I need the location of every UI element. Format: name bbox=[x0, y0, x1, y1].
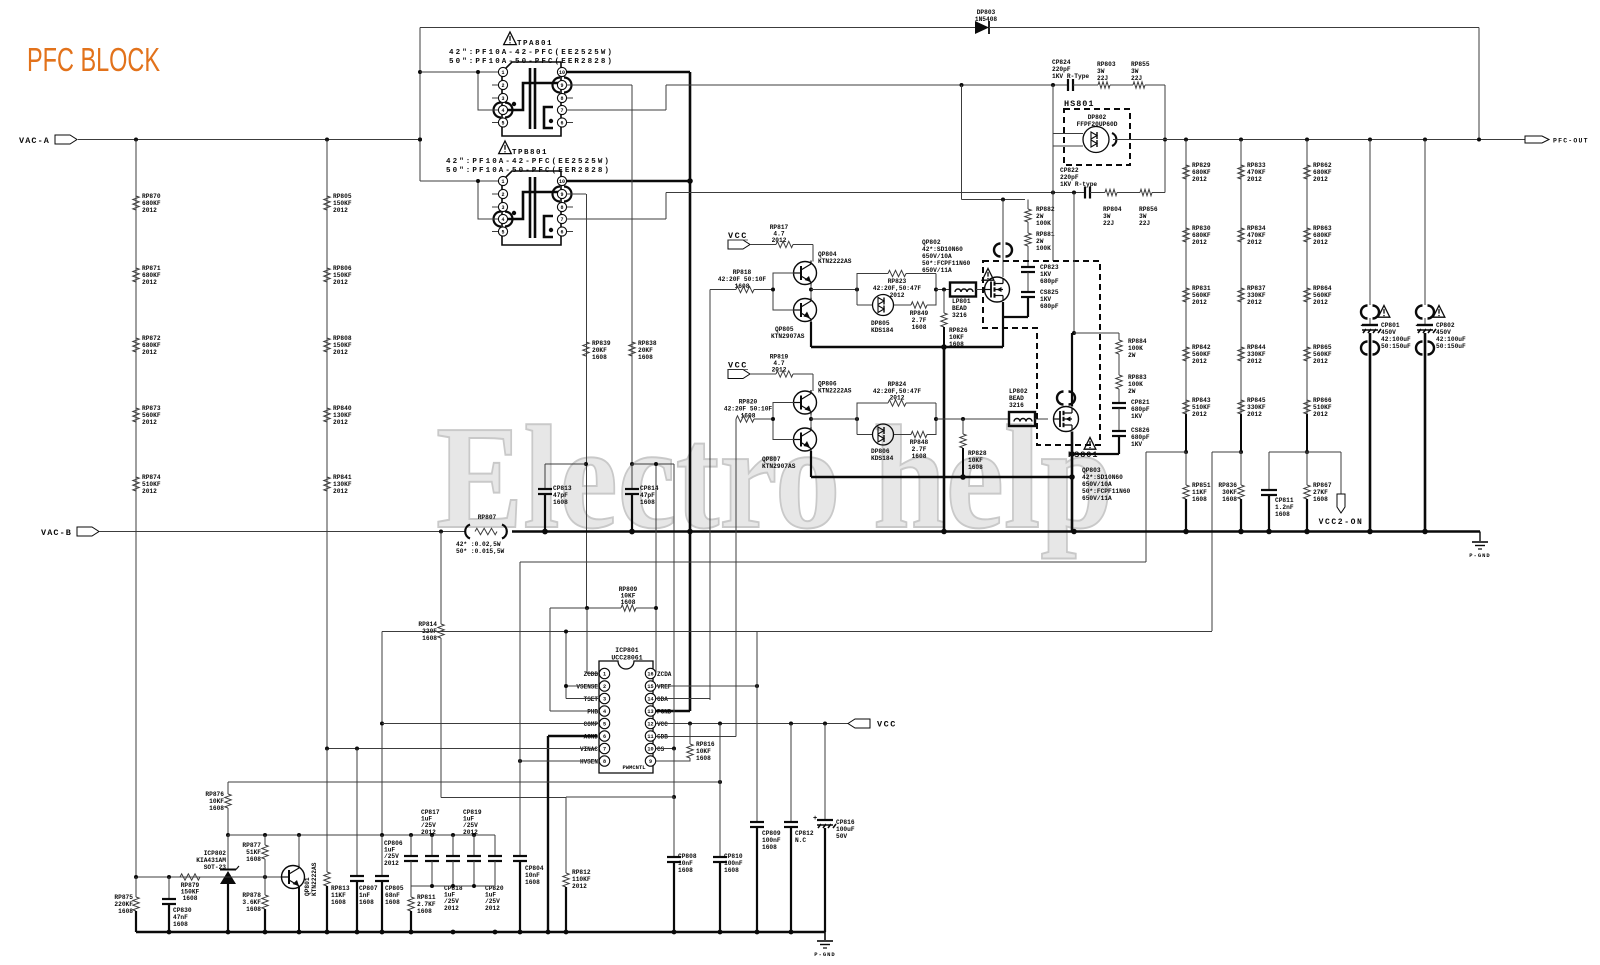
svg-text:100K: 100K bbox=[1128, 381, 1143, 388]
svg-text:1608: 1608 bbox=[912, 453, 927, 460]
svg-text:50*:FCPF11N60: 50*:FCPF11N60 bbox=[1082, 488, 1131, 495]
svg-text:2012: 2012 bbox=[1192, 358, 1207, 365]
svg-text:15: 15 bbox=[647, 684, 653, 690]
svg-text:CP808: CP808 bbox=[678, 853, 697, 860]
svg-text:KDS184: KDS184 bbox=[871, 455, 894, 462]
svg-text:680pF: 680pF bbox=[1040, 303, 1059, 310]
svg-text:2012: 2012 bbox=[1247, 411, 1262, 418]
diode DP806 bbox=[856, 419, 858, 435]
capacitor CP810 bbox=[719, 724, 721, 858]
svg-text:2W: 2W bbox=[1128, 352, 1136, 359]
svg-text:RP829: RP829 bbox=[1192, 162, 1211, 169]
svg-text:10nF: 10nF bbox=[678, 860, 693, 867]
svg-text:DP805: DP805 bbox=[871, 320, 890, 327]
wire QP802 drain bbox=[1002, 200, 1004, 278]
svg-text:220pF: 220pF bbox=[1052, 66, 1071, 73]
svg-text:5: 5 bbox=[501, 230, 504, 236]
resistor RP808 bbox=[324, 338, 330, 352]
svg-text:VCC: VCC bbox=[657, 721, 668, 728]
svg-text:680KF: 680KF bbox=[1313, 232, 1332, 239]
svg-text:1608: 1608 bbox=[209, 805, 224, 812]
svg-text:1nF: 1nF bbox=[359, 892, 370, 899]
svg-text:220KF: 220KF bbox=[114, 901, 133, 908]
svg-text:42:20F 50:10F: 42:20F 50:10F bbox=[724, 406, 773, 413]
svg-text:3: 3 bbox=[501, 205, 504, 211]
svg-text:RP840: RP840 bbox=[333, 405, 352, 412]
svg-text:1608: 1608 bbox=[678, 867, 693, 874]
svg-text:RP831: RP831 bbox=[1192, 285, 1211, 292]
svg-text:BEAD: BEAD bbox=[952, 305, 967, 312]
svg-text:2012: 2012 bbox=[1192, 299, 1207, 306]
svg-text:QP804: QP804 bbox=[818, 251, 837, 258]
resistor RP844 bbox=[1238, 347, 1244, 361]
svg-text:2012: 2012 bbox=[1313, 299, 1328, 306]
svg-text:42*:SD10N60: 42*:SD10N60 bbox=[1082, 474, 1123, 481]
svg-text:1608: 1608 bbox=[118, 908, 133, 915]
svg-text:RP837: RP837 bbox=[1247, 285, 1266, 292]
wire driver B emitter bus thick bbox=[810, 451, 812, 477]
heatsink HS801 lower dashed box bbox=[983, 261, 1100, 445]
IC ICP801 UCC28061 bbox=[576, 647, 671, 773]
svg-text:RP842: RP842 bbox=[1192, 344, 1211, 351]
svg-text:1KV: 1KV bbox=[1040, 296, 1051, 303]
svg-text:VCC: VCC bbox=[728, 231, 748, 241]
svg-text:RP848: RP848 bbox=[910, 439, 929, 446]
svg-text:150KF: 150KF bbox=[333, 342, 352, 349]
wire CP822 net drop x=1074 bbox=[1073, 193, 1075, 334]
svg-text:RP849: RP849 bbox=[910, 310, 929, 317]
svg-text:330KF: 330KF bbox=[1247, 404, 1266, 411]
wire bus to P-GND bbox=[1479, 532, 1481, 542]
svg-text:QP801: QP801 bbox=[304, 877, 311, 896]
node VCC2-ON bbox=[1307, 451, 1341, 453]
svg-text:CP816: CP816 bbox=[836, 819, 855, 826]
svg-text:RP807: RP807 bbox=[478, 514, 497, 521]
wire AGND thick bbox=[548, 735, 597, 737]
capacitor CP820 bbox=[494, 835, 496, 856]
resistor RP843 bbox=[1183, 400, 1189, 414]
svg-text:RP867: RP867 bbox=[1313, 482, 1332, 489]
svg-text:470KF: 470KF bbox=[1247, 232, 1266, 239]
wire CS net bbox=[656, 748, 674, 750]
svg-text:2012: 2012 bbox=[1313, 411, 1328, 418]
svg-text:680KF: 680KF bbox=[1192, 169, 1211, 176]
svg-text:RP875: RP875 bbox=[114, 894, 133, 901]
svg-text:13: 13 bbox=[647, 709, 653, 715]
svg-text:680pF: 680pF bbox=[1131, 406, 1150, 413]
svg-text:100K: 100K bbox=[1128, 345, 1143, 352]
svg-text:22J: 22J bbox=[1097, 75, 1108, 82]
svg-text:2: 2 bbox=[501, 192, 504, 198]
ferrite bead LP801 bbox=[950, 283, 976, 297]
ferrite bead LP802 bbox=[1009, 412, 1035, 426]
svg-text:1608: 1608 bbox=[525, 879, 540, 886]
svg-text:650V/11A: 650V/11A bbox=[922, 267, 952, 274]
resistor RP873 bbox=[133, 408, 139, 422]
svg-text:3216: 3216 bbox=[952, 312, 967, 319]
svg-text:RP881: RP881 bbox=[1036, 231, 1055, 238]
svg-text:4: 4 bbox=[501, 217, 504, 223]
resistor RP848 bbox=[894, 434, 911, 436]
svg-text:42:100uF: 42:100uF bbox=[1436, 336, 1466, 343]
svg-text:RP862: RP862 bbox=[1313, 162, 1332, 169]
svg-text:DP803: DP803 bbox=[977, 9, 996, 16]
svg-text:330KF: 330KF bbox=[1247, 351, 1266, 358]
svg-text:BEAD: BEAD bbox=[1009, 395, 1024, 402]
wire bottom gnd bus thick bbox=[136, 931, 825, 934]
resistor RP862 bbox=[1304, 165, 1310, 179]
capacitor CP822 bbox=[1084, 187, 1086, 199]
svg-text:RP806: RP806 bbox=[333, 265, 352, 272]
capacitor CP811 bbox=[1269, 451, 1307, 453]
svg-text:2.7F: 2.7F bbox=[912, 317, 927, 324]
svg-text:1608: 1608 bbox=[621, 599, 636, 606]
svg-text:8: 8 bbox=[560, 205, 563, 211]
svg-text:HS801: HS801 bbox=[1064, 99, 1095, 109]
svg-text:10: 10 bbox=[559, 179, 565, 185]
svg-text:1608: 1608 bbox=[183, 895, 198, 902]
resistor RP811 bbox=[410, 886, 412, 897]
svg-text:2012: 2012 bbox=[772, 366, 787, 373]
svg-text:CP804: CP804 bbox=[525, 865, 544, 872]
heatsink HS801 dashed box bbox=[1064, 109, 1130, 165]
svg-text:1608: 1608 bbox=[640, 499, 655, 506]
svg-text:2W: 2W bbox=[1128, 388, 1136, 395]
svg-text:560KF: 560KF bbox=[1313, 351, 1332, 358]
svg-text:1608: 1608 bbox=[385, 899, 400, 906]
svg-text:PWMCNTL: PWMCNTL bbox=[622, 764, 646, 771]
svg-text:2012: 2012 bbox=[1313, 176, 1328, 183]
capacitor CP816 bbox=[824, 724, 826, 821]
resistor RP804 bbox=[1090, 192, 1105, 194]
svg-text:.: . bbox=[1359, 320, 1364, 329]
svg-text:510KF: 510KF bbox=[1313, 404, 1332, 411]
svg-text:2012: 2012 bbox=[333, 207, 348, 214]
svg-text:680pF: 680pF bbox=[1131, 434, 1150, 441]
svg-text:N.C: N.C bbox=[795, 837, 806, 844]
wire CS to RP812 bbox=[566, 796, 674, 798]
svg-text:11: 11 bbox=[647, 734, 653, 740]
svg-text:1608: 1608 bbox=[359, 899, 374, 906]
resistor RP834 bbox=[1238, 228, 1244, 242]
capacitor CP814 bbox=[631, 464, 633, 489]
wire RP876 feedback y=782 bbox=[228, 781, 720, 783]
wire gate node A bbox=[936, 289, 950, 291]
MOSFET QP803 bbox=[1057, 392, 1064, 405]
wire QP801 emitter bbox=[298, 886, 300, 932]
svg-text:2012: 2012 bbox=[142, 279, 157, 286]
wire sense line y=562 bbox=[520, 561, 1146, 563]
svg-text:2: 2 bbox=[603, 684, 606, 690]
svg-text:510KF: 510KF bbox=[142, 481, 161, 488]
svg-text:7: 7 bbox=[560, 108, 563, 114]
svg-text:42:20F,50:47F: 42:20F,50:47F bbox=[873, 285, 922, 292]
wire top bus drop to PFC-OUT line bbox=[1478, 28, 1480, 140]
svg-text:RP830: RP830 bbox=[1192, 225, 1211, 232]
svg-text:RP838: RP838 bbox=[638, 340, 657, 347]
svg-text:22J: 22J bbox=[1131, 75, 1142, 82]
wire TSET VSENSE riser x=566 bbox=[565, 632, 567, 699]
svg-text:RP855: RP855 bbox=[1131, 61, 1150, 68]
svg-text:560KF: 560KF bbox=[1192, 351, 1211, 358]
svg-text:2012: 2012 bbox=[142, 488, 157, 495]
svg-text:1: 1 bbox=[603, 672, 606, 678]
svg-text:RP856: RP856 bbox=[1139, 206, 1158, 213]
svg-text:LP801: LP801 bbox=[952, 298, 971, 305]
wire CS826 to source thick bbox=[1118, 436, 1120, 454]
svg-text:510KF: 510KF bbox=[1192, 404, 1211, 411]
svg-text:680KF: 680KF bbox=[1192, 232, 1211, 239]
wire base link B bbox=[773, 403, 794, 420]
resistor RP805 bbox=[324, 196, 330, 210]
svg-text:50:150uF: 50:150uF bbox=[1436, 343, 1466, 350]
wire VINAC column continue bbox=[326, 749, 328, 873]
wire VCC net bbox=[656, 723, 848, 725]
svg-text:42*:SD10N60: 42*:SD10N60 bbox=[922, 246, 963, 253]
resistor RP883 bbox=[1118, 354, 1120, 375]
capacitor CP812 bbox=[790, 724, 792, 823]
svg-text:3: 3 bbox=[501, 96, 504, 102]
svg-text:RP884: RP884 bbox=[1128, 338, 1147, 345]
label TPA801 bbox=[504, 32, 517, 45]
svg-text:2012: 2012 bbox=[890, 292, 905, 299]
node VCC flag A bbox=[728, 240, 750, 249]
resistor RP875 bbox=[135, 877, 137, 897]
svg-text:2012: 2012 bbox=[485, 905, 500, 912]
svg-text:10: 10 bbox=[647, 747, 653, 753]
svg-text:450V: 450V bbox=[1436, 329, 1451, 336]
wire driver A emitter bus thick bbox=[810, 322, 812, 347]
wire VREF riser x=757 / CP809 bbox=[756, 631, 758, 822]
capacitor CP807 bbox=[356, 749, 358, 877]
svg-text:1608: 1608 bbox=[724, 867, 739, 874]
svg-text:100K: 100K bbox=[1036, 220, 1051, 227]
svg-text:CP830: CP830 bbox=[173, 907, 192, 914]
wire bleeder column x=1307 bbox=[1306, 140, 1308, 415]
svg-text:2: 2 bbox=[501, 83, 504, 89]
transistor QP804 bbox=[794, 262, 817, 285]
svg-text:RP874: RP874 bbox=[142, 474, 161, 481]
svg-text:6: 6 bbox=[560, 121, 563, 127]
transistor QP807 bbox=[794, 428, 817, 451]
svg-text:100nF: 100nF bbox=[724, 860, 743, 867]
resistor RP876 bbox=[227, 782, 229, 794]
svg-text:2012: 2012 bbox=[890, 395, 905, 402]
transformer TPB801 bbox=[492, 171, 573, 245]
svg-text:2012: 2012 bbox=[1247, 239, 1262, 246]
resistor RP878 bbox=[264, 877, 266, 895]
svg-text:RP876: RP876 bbox=[205, 791, 224, 798]
wire box link to x674 bbox=[632, 463, 674, 465]
svg-text:RP813: RP813 bbox=[331, 885, 350, 892]
svg-text:47nF: 47nF bbox=[173, 914, 188, 921]
capacitor CP830 bbox=[168, 877, 170, 899]
wire divider column x=327 bbox=[326, 140, 328, 749]
svg-text:QP805: QP805 bbox=[775, 326, 794, 333]
svg-text:KTN2222AS: KTN2222AS bbox=[311, 862, 318, 896]
resistor RP812 bbox=[563, 873, 569, 887]
svg-text:3216: 3216 bbox=[1009, 402, 1024, 409]
svg-text:DP802: DP802 bbox=[1088, 114, 1107, 121]
svg-text:RP841: RP841 bbox=[333, 474, 352, 481]
svg-text:RP865: RP865 bbox=[1313, 344, 1332, 351]
svg-text:5: 5 bbox=[501, 121, 504, 127]
svg-text:150KF: 150KF bbox=[333, 272, 352, 279]
svg-text:10: 10 bbox=[559, 70, 565, 76]
svg-text:2012: 2012 bbox=[1247, 358, 1262, 365]
svg-text:PGND: PGND bbox=[657, 709, 672, 716]
svg-text:P-GND: P-GND bbox=[814, 951, 836, 958]
svg-text:650V/11A: 650V/11A bbox=[1082, 495, 1112, 502]
svg-text:2.7F: 2.7F bbox=[912, 446, 927, 453]
svg-text:10KF: 10KF bbox=[968, 457, 983, 464]
svg-text:220pF: 220pF bbox=[1060, 174, 1079, 181]
svg-text:RP828: RP828 bbox=[968, 450, 987, 457]
svg-text:CS: CS bbox=[657, 746, 665, 753]
svg-text:RP808: RP808 bbox=[333, 335, 352, 342]
svg-text:KDS184: KDS184 bbox=[871, 327, 894, 334]
svg-text:100nF: 100nF bbox=[762, 837, 781, 844]
svg-text:1608: 1608 bbox=[592, 354, 607, 361]
svg-text:ICP802: ICP802 bbox=[204, 850, 227, 857]
svg-text:2012: 2012 bbox=[1313, 358, 1328, 365]
svg-text:KTN2222AS: KTN2222AS bbox=[818, 388, 852, 395]
capacitor CP806 bbox=[410, 835, 412, 856]
wire HVSEN riser x=520 bbox=[519, 562, 521, 857]
svg-text:RP863: RP863 bbox=[1313, 225, 1332, 232]
wire TPA801 pin1 feed bbox=[420, 71, 498, 73]
svg-text:680KF: 680KF bbox=[142, 272, 161, 279]
svg-text:7: 7 bbox=[560, 217, 563, 223]
node VCC flag B bbox=[728, 370, 750, 379]
resistor RP877 bbox=[264, 835, 266, 845]
svg-text:50:150uF: 50:150uF bbox=[1381, 343, 1411, 350]
svg-text:RP811: RP811 bbox=[417, 894, 436, 901]
svg-text:2012: 2012 bbox=[444, 905, 459, 912]
svg-text:2012: 2012 bbox=[1247, 299, 1262, 306]
svg-text:9: 9 bbox=[560, 83, 563, 89]
svg-text:2012: 2012 bbox=[421, 829, 436, 836]
resistor RP866 bbox=[1304, 400, 1310, 414]
svg-text:CP813: CP813 bbox=[553, 485, 572, 492]
svg-text:QP807: QP807 bbox=[762, 456, 781, 463]
svg-text:CS825: CS825 bbox=[1040, 289, 1059, 296]
svg-text:TPB801: TPB801 bbox=[512, 149, 548, 157]
svg-text:QP806: QP806 bbox=[818, 381, 837, 388]
svg-text:RP814: RP814 bbox=[418, 621, 437, 628]
svg-text:50* :0.015,5W: 50* :0.015,5W bbox=[456, 548, 505, 555]
svg-text:2012: 2012 bbox=[1192, 176, 1207, 183]
svg-text:1KV R-type: 1KV R-type bbox=[1060, 181, 1097, 188]
svg-text:PFC-OUT: PFC-OUT bbox=[1553, 138, 1589, 145]
svg-text:42:100uF: 42:100uF bbox=[1381, 336, 1411, 343]
svg-text:RP833: RP833 bbox=[1247, 162, 1266, 169]
svg-text:RP805: RP805 bbox=[333, 193, 352, 200]
label TPB801 bbox=[499, 141, 512, 154]
svg-text:VINAC: VINAC bbox=[580, 746, 598, 753]
svg-text:2W: 2W bbox=[1036, 238, 1044, 245]
svg-text:1608: 1608 bbox=[173, 921, 188, 928]
capacitor CS826 bbox=[1118, 408, 1120, 431]
svg-text:8: 8 bbox=[560, 96, 563, 102]
svg-text:VCC: VCC bbox=[877, 720, 897, 730]
resistor RP841 bbox=[324, 477, 330, 491]
resistor RP814 bbox=[440, 532, 442, 625]
svg-text:9: 9 bbox=[649, 759, 652, 765]
svg-text:9: 9 bbox=[560, 192, 563, 198]
wire TPA801 pin4 loop bbox=[478, 72, 498, 110]
svg-text:2012: 2012 bbox=[142, 207, 157, 214]
svg-text:RP824: RP824 bbox=[888, 381, 907, 388]
capacitor CP802 bbox=[1424, 140, 1426, 306]
svg-text:42":PF10A-42-PFC(EE2525W): 42":PF10A-42-PFC(EE2525W) bbox=[449, 49, 614, 57]
diode DP805 bbox=[856, 290, 858, 306]
wire PGND branch thick bbox=[689, 532, 692, 712]
resistor RP879 bbox=[180, 874, 200, 880]
capacitor CP818 bbox=[452, 835, 454, 856]
svg-text:2012: 2012 bbox=[772, 237, 787, 244]
svg-text:ZCDB: ZCDB bbox=[584, 671, 599, 678]
svg-text:RP839: RP839 bbox=[592, 340, 611, 347]
wire CS825 to source bbox=[1027, 297, 1029, 317]
svg-text:RP826: RP826 bbox=[949, 327, 968, 334]
svg-text:4: 4 bbox=[501, 108, 504, 114]
wire VINAC net bbox=[327, 748, 597, 750]
svg-text:50":PF10A-50-PFC(EER2828): 50":PF10A-50-PFC(EER2828) bbox=[446, 167, 611, 175]
resistor RP865 bbox=[1304, 347, 1310, 361]
svg-text:RP882: RP882 bbox=[1036, 206, 1055, 213]
resistor RP884 bbox=[1118, 333, 1120, 340]
svg-text:RP844: RP844 bbox=[1247, 344, 1266, 351]
svg-text:10KF: 10KF bbox=[949, 334, 964, 341]
wire emitter junction B bbox=[810, 414, 812, 428]
svg-text:RP823: RP823 bbox=[888, 278, 907, 285]
svg-text:PFC BLOCK: PFC BLOCK bbox=[27, 41, 160, 78]
capacitor CP823 bbox=[1027, 246, 1029, 267]
svg-text:68nF: 68nF bbox=[385, 892, 400, 899]
wire COMP net bbox=[382, 723, 599, 725]
wire compensation long y=631.5 bbox=[382, 631, 1212, 633]
resistor RP863 bbox=[1304, 228, 1310, 242]
resistor RP809 bbox=[550, 607, 621, 609]
svg-text:50V: 50V bbox=[836, 833, 847, 840]
wire base link A bbox=[773, 273, 794, 290]
svg-text:RP820: RP820 bbox=[739, 399, 758, 406]
svg-text:HVSEN: HVSEN bbox=[580, 759, 598, 766]
svg-text:VCC: VCC bbox=[728, 361, 748, 371]
wire bleeder column x=1186 bbox=[1185, 140, 1187, 415]
svg-text:2012: 2012 bbox=[142, 349, 157, 356]
resistor RP867 bbox=[1305, 450, 1309, 454]
wire ref y=877 bbox=[136, 876, 282, 878]
svg-text:RP878: RP878 bbox=[242, 892, 261, 899]
resistor RP833 bbox=[1238, 165, 1244, 179]
svg-text:50*:FCPF11N60: 50*:FCPF11N60 bbox=[922, 260, 971, 267]
resistor RP806 bbox=[324, 268, 330, 282]
svg-text:CP802: CP802 bbox=[1436, 322, 1455, 329]
resistor RP851 bbox=[1184, 450, 1188, 454]
svg-text:470KF: 470KF bbox=[1247, 169, 1266, 176]
svg-text:1608: 1608 bbox=[422, 635, 437, 642]
svg-text:KTN2222AS: KTN2222AS bbox=[818, 258, 852, 265]
svg-text:42":PF10A-42-PFC(EE2525W): 42":PF10A-42-PFC(EE2525W) bbox=[446, 158, 611, 166]
resistor RP856 bbox=[1117, 192, 1140, 194]
svg-text:RP804: RP804 bbox=[1103, 206, 1122, 213]
resistor RP830 bbox=[1183, 228, 1189, 242]
svg-text:22J: 22J bbox=[1103, 220, 1114, 227]
svg-text:RP812: RP812 bbox=[572, 869, 591, 876]
svg-text:TPA801: TPA801 bbox=[517, 40, 553, 48]
